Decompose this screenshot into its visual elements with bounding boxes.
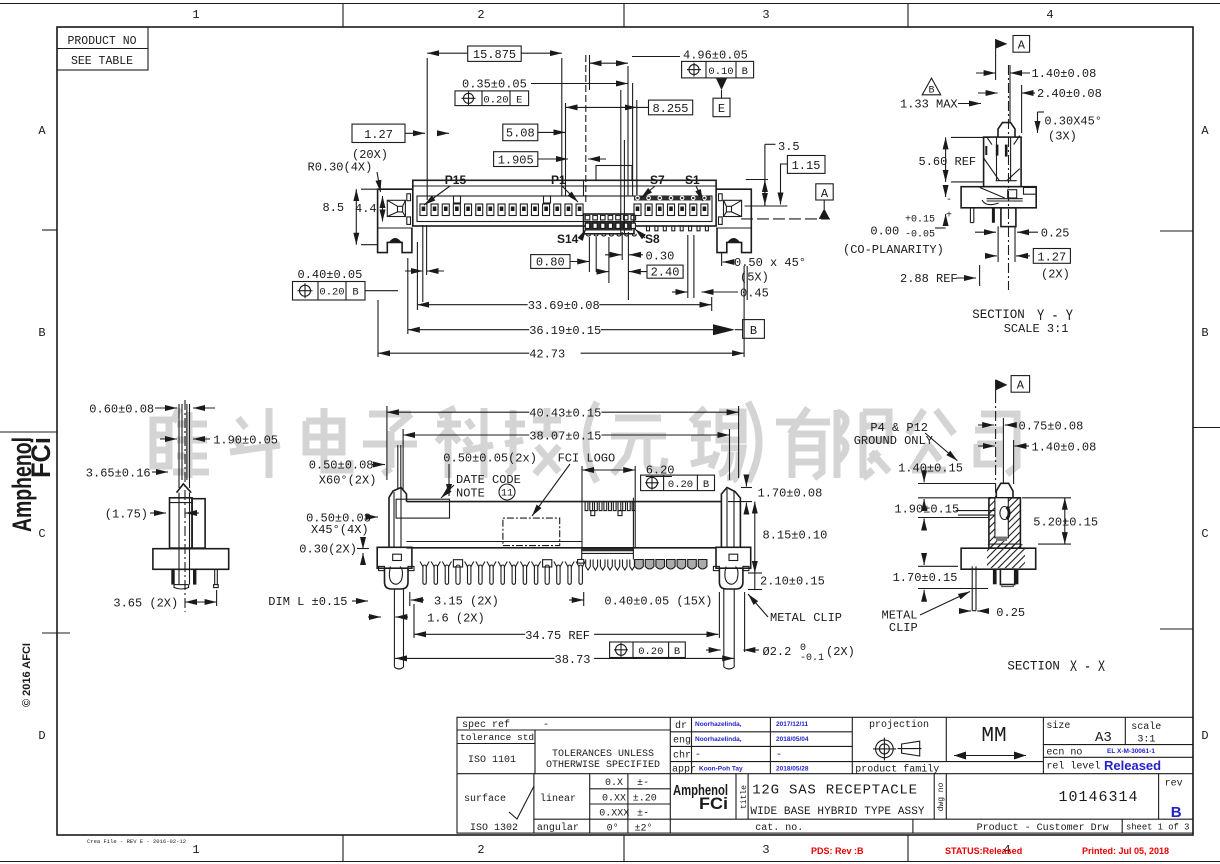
- svg-text:Noorhazelinda,: Noorhazelinda,: [695, 721, 742, 728]
- svg-text:2.40: 2.40: [651, 266, 680, 280]
- title strip: [735, 774, 737, 820]
- svg-text:1.70±0.15: 1.70±0.15: [893, 571, 958, 585]
- rev cell: [1158, 774, 1160, 820]
- svg-text:1.90±0.15: 1.90±0.15: [894, 503, 959, 517]
- dim 42.73: [378, 352, 529, 354]
- svg-text:+0.15: +0.15: [905, 215, 935, 226]
- S8-S14 block: [584, 214, 635, 234]
- svg-text:±.20: ±.20: [633, 794, 657, 805]
- svg-text:+: +: [946, 211, 952, 222]
- body outline: [413, 180, 716, 226]
- svg-text:34.75 REF: 34.75 REF: [525, 629, 590, 643]
- copyright 2016 AFCI vertical: [21, 643, 33, 707]
- fci logo dashed box: [503, 518, 560, 546]
- svg-text:PRODUCT NO: PRODUCT NO: [67, 35, 136, 48]
- svg-text:0°: 0°: [607, 823, 619, 835]
- svg-text:EL X-M-30061-1: EL X-M-30061-1: [1107, 748, 1155, 755]
- svg-text:dwg no: dwg no: [937, 782, 946, 811]
- svg-text:±-: ±-: [637, 809, 649, 820]
- wm char 技: [505, 408, 561, 474]
- tolerance std cell: [457, 743, 535, 745]
- svg-text:0.XX: 0.XX: [602, 794, 626, 805]
- base flange: [153, 549, 229, 570]
- wm char 有: [776, 408, 830, 478]
- product no box: [57, 27, 148, 70]
- part body tube: [170, 498, 193, 548]
- svg-text:2018/05/04: 2018/05/04: [776, 736, 809, 743]
- svg-text:linear: linear: [540, 793, 576, 805]
- svg-text:5.60 REF: 5.60 REF: [919, 155, 977, 169]
- dwg no strip: [933, 774, 935, 820]
- section flag A: [995, 39, 997, 80]
- svg-text:1.70±0.08: 1.70±0.08: [758, 487, 823, 501]
- dim 1.27 (2X): [1033, 249, 1070, 264]
- dim 8.255: [649, 100, 693, 115]
- svg-text:1.40±0.15: 1.40±0.15: [898, 462, 963, 476]
- wm char 司: [975, 414, 1017, 474]
- right post: [721, 488, 740, 548]
- svg-text:surface: surface: [464, 793, 506, 805]
- svg-text:0.50±0.08: 0.50±0.08: [309, 459, 374, 473]
- S pins row S1..S7: [634, 196, 708, 215]
- left tab dome: [389, 238, 402, 242]
- svg-text:8.5: 8.5: [323, 201, 345, 215]
- svg-text:0.XXX: 0.XXX: [599, 809, 629, 820]
- svg-text:(3X): (3X): [1048, 130, 1077, 144]
- svg-text:33.69±0.08: 33.69±0.08: [528, 299, 600, 313]
- dr eng chr appr table: [669, 717, 671, 833]
- pegs: [393, 589, 395, 667]
- part tip: [177, 484, 192, 493]
- svg-text:4.4: 4.4: [355, 202, 377, 216]
- svg-text:1.33 MAX: 1.33 MAX: [900, 98, 958, 112]
- svg-text:rev: rev: [1165, 779, 1183, 790]
- svg-text:1: 1: [192, 8, 199, 22]
- svg-text:B: B: [703, 479, 709, 491]
- part Y-Y base flange: [961, 187, 1036, 208]
- svg-text:scale: scale: [1131, 721, 1161, 733]
- datum flag E: [716, 78, 727, 90]
- fcf mid 0.20 B: [641, 475, 715, 491]
- part Y-Y tip: [998, 123, 1015, 138]
- svg-text:SEE TABLE: SEE TABLE: [71, 55, 133, 68]
- ecn no row: [1043, 756, 1193, 758]
- svg-text:D: D: [1201, 729, 1208, 743]
- svg-text:TOLERANCES UNLESS: TOLERANCES UNLESS: [552, 749, 654, 760]
- svg-text:X - X: X - X: [1070, 658, 1105, 676]
- svg-text:eng: eng: [673, 736, 691, 747]
- svg-text:0.60±0.08: 0.60±0.08: [89, 403, 154, 417]
- svg-text:10146314: 10146314: [1059, 789, 1139, 806]
- dim 0.80: [531, 255, 570, 269]
- svg-text:FCi: FCi: [699, 794, 728, 813]
- svg-text:title: title: [740, 785, 749, 809]
- svg-text:1.90±0.05: 1.90±0.05: [213, 434, 278, 448]
- svg-text:S8: S8: [645, 232, 660, 246]
- svg-text:FCi: FCi: [26, 437, 56, 478]
- svg-text:-: -: [695, 750, 701, 761]
- right end block: [716, 547, 751, 568]
- svg-text:NOTE: NOTE: [456, 487, 485, 501]
- svg-text:1.905: 1.905: [498, 154, 534, 168]
- title block: [457, 717, 1193, 834]
- wm char 子: [363, 414, 417, 474]
- left end block: [377, 547, 412, 568]
- svg-text:-: -: [543, 720, 549, 731]
- date code box: [396, 499, 449, 518]
- svg-text:ISO 1101: ISO 1101: [468, 755, 516, 766]
- svg-text:E: E: [516, 94, 522, 106]
- bottom row texts: [87, 838, 1169, 856]
- svg-text:3: 3: [762, 843, 769, 857]
- centerline: [184, 400, 186, 612]
- svg-text:3.65±0.16: 3.65±0.16: [86, 467, 151, 481]
- svg-text:0.25: 0.25: [1041, 227, 1070, 241]
- svg-text:3: 3: [762, 8, 769, 22]
- svg-text:±2°: ±2°: [635, 823, 653, 835]
- svg-text:dr: dr: [675, 720, 687, 732]
- svg-text:0.20: 0.20: [319, 287, 344, 299]
- svg-text:A: A: [1018, 39, 1026, 53]
- svg-text:8.15±0.10: 8.15±0.10: [763, 529, 828, 543]
- svg-text:OTHERWISE SPECIFIED: OTHERWISE SPECIFIED: [546, 760, 660, 771]
- svg-text:spec ref: spec ref: [462, 719, 510, 731]
- svg-text:(CO-PLANARITY): (CO-PLANARITY): [843, 243, 944, 257]
- dim 34.75 REF: [414, 633, 525, 635]
- svg-text:SECTION: SECTION: [972, 308, 1025, 322]
- tol table: [627, 774, 629, 833]
- svg-text:ecn no: ecn no: [1046, 748, 1082, 759]
- svg-text:A: A: [821, 187, 829, 201]
- svg-text:A3: A3: [1095, 730, 1112, 746]
- svg-text:A: A: [1017, 379, 1025, 393]
- inner body lines: [413, 185, 716, 187]
- svg-text:WIDE BASE HYBRID TYPE ASSY: WIDE BASE HYBRID TYPE ASSY: [750, 806, 925, 818]
- svg-text:S14: S14: [557, 232, 579, 246]
- zone ticks right: [1160, 230, 1193, 232]
- polarization bumps: [454, 196, 461, 203]
- svg-text:Koon-Poh Tay: Koon-Poh Tay: [699, 766, 743, 773]
- svg-text:size: size: [1046, 720, 1070, 732]
- svg-text:B: B: [750, 324, 757, 338]
- svg-text:11: 11: [501, 489, 513, 500]
- svg-text:B: B: [1201, 326, 1208, 340]
- S tails top center: [585, 502, 635, 516]
- svg-text:0.40±0.05: 0.40±0.05: [298, 268, 363, 282]
- svg-text:cat. no.: cat. no.: [755, 823, 803, 834]
- svg-text:1.6 (2X): 1.6 (2X): [427, 612, 485, 626]
- dim 5.08: [503, 124, 538, 141]
- part X-X base flange: [961, 548, 1036, 569]
- svg-text:2.88 REF: 2.88 REF: [900, 272, 958, 286]
- dim 33.69±0.08: [417, 304, 528, 306]
- size scale cells: [1042, 717, 1044, 773]
- svg-text:tolerance std: tolerance std: [460, 732, 534, 743]
- svg-text:8.255: 8.255: [652, 102, 688, 116]
- svg-text:3.15 (2X): 3.15 (2X): [434, 595, 499, 609]
- svg-text:1.15: 1.15: [792, 159, 821, 173]
- svg-text:0.50 x 45°: 0.50 x 45°: [734, 256, 806, 270]
- svg-text:2017/12/11: 2017/12/11: [776, 721, 809, 728]
- svg-text:0.20: 0.20: [668, 479, 693, 491]
- svg-text:2: 2: [477, 8, 484, 22]
- svg-text:±-: ±-: [637, 778, 649, 789]
- svg-text:3:1: 3:1: [1137, 735, 1155, 746]
- legs: [171, 569, 174, 584]
- svg-text:C: C: [1201, 527, 1208, 541]
- dim 1.905: [494, 152, 538, 167]
- left small view: [86, 400, 278, 612]
- spec ref cell: [457, 729, 670, 731]
- X detail left: [387, 200, 405, 216]
- svg-text:2.10±0.15: 2.10±0.15: [760, 575, 825, 589]
- svg-text:38.73: 38.73: [555, 653, 591, 667]
- part Y-Y body: [984, 137, 1022, 187]
- section X-X: [854, 376, 1106, 676]
- wm char 公: [908, 410, 954, 470]
- middle bottom view: [268, 406, 855, 669]
- svg-text:(5X): (5X): [740, 271, 769, 285]
- top pins: [178, 404, 180, 488]
- svg-text:(2X): (2X): [1041, 268, 1070, 282]
- svg-text:1.27: 1.27: [364, 128, 393, 142]
- svg-text:Released: Released: [1104, 758, 1161, 773]
- svg-text:ISO 1302: ISO 1302: [470, 823, 518, 834]
- svg-text:1: 1: [192, 843, 199, 857]
- dim 40.43±0.15: [387, 411, 529, 413]
- top view: [293, 46, 834, 362]
- svg-text:-: -: [776, 750, 782, 761]
- svg-text:C: C: [38, 527, 45, 541]
- P pins row P15..P1: [420, 204, 583, 216]
- svg-text:0.30: 0.30: [646, 250, 675, 264]
- svg-text:2.40±0.08: 2.40±0.08: [1037, 87, 1102, 101]
- svg-text:2018/05/28: 2018/05/28: [776, 766, 809, 773]
- part X-X body hatched: [989, 498, 1021, 548]
- center pin rod: [178, 493, 180, 585]
- svg-text:FCI LOGO: FCI LOGO: [558, 452, 616, 466]
- svg-text:0.30X45°: 0.30X45°: [1044, 115, 1102, 129]
- dim 1.15 box: [787, 156, 825, 174]
- part top edge: [407, 501, 722, 503]
- svg-text:15.875: 15.875: [473, 48, 516, 62]
- svg-text:-0.05: -0.05: [905, 230, 935, 241]
- wm char 科: [437, 408, 493, 478]
- part X-X tip: [996, 483, 1013, 498]
- svg-text:SECTION: SECTION: [1007, 660, 1060, 674]
- svg-text:B: B: [674, 646, 680, 658]
- svg-text:Product - Customer Drw: Product - Customer Drw: [977, 822, 1109, 834]
- svg-text:0.80: 0.80: [536, 256, 565, 270]
- section flag A: [995, 380, 997, 393]
- dim 36.19±0.15: [408, 329, 529, 331]
- wm char 斗: [230, 408, 280, 478]
- right flange: [716, 189, 751, 252]
- svg-text:B: B: [38, 326, 45, 340]
- svg-text:0.00: 0.00: [870, 225, 899, 239]
- svg-text:Printed: Jul 05, 2018: Printed: Jul 05, 2018: [1082, 846, 1169, 856]
- svg-text:Crea File - REV E - 2016-02-: Crea File - REV E - 2016-02-12: [87, 838, 186, 845]
- svg-text:3.5: 3.5: [778, 140, 800, 154]
- svg-text:40.43±0.15: 40.43±0.15: [529, 407, 601, 421]
- svg-text:-0.1: -0.1: [800, 653, 824, 664]
- svg-text:B: B: [1171, 804, 1182, 821]
- fcf 0.20 E: [455, 91, 529, 106]
- wm char 电: [306, 408, 350, 470]
- svg-text:B: B: [742, 66, 748, 78]
- middle band: [457, 773, 1193, 775]
- svg-text:SCALE 3:1: SCALE 3:1: [1004, 322, 1069, 336]
- zone ticks left: [42, 229, 57, 231]
- svg-text:METAL CLIP: METAL CLIP: [770, 611, 842, 625]
- svg-text:sheet 1 of 3: sheet 1 of 3: [1126, 823, 1189, 833]
- svg-text:(1.75): (1.75): [105, 508, 148, 522]
- svg-text:chr: chr: [673, 750, 691, 762]
- svg-text:1.40±0.08: 1.40±0.08: [1032, 67, 1097, 81]
- wm char (: [586, 402, 597, 482]
- svg-text:0.50±0.05(2x): 0.50±0.05(2x): [443, 452, 537, 466]
- dim 38.73: [395, 657, 555, 659]
- svg-text:1.40±0.08: 1.40±0.08: [1032, 441, 1097, 455]
- svg-text:E: E: [718, 102, 725, 116]
- svg-text:R0.30(4X): R0.30(4X): [308, 161, 373, 175]
- wm char 限: [837, 410, 889, 478]
- svg-text:5.20±0.15: 5.20±0.15: [1033, 516, 1098, 530]
- svg-text:5.08: 5.08: [506, 127, 535, 141]
- svg-text:3.65 (2X): 3.65 (2X): [113, 597, 178, 611]
- bottom row of title block: [670, 818, 1193, 820]
- svg-text:P15: P15: [445, 173, 467, 187]
- svg-text:(2X): (2X): [826, 645, 855, 659]
- svg-text:2: 2: [477, 843, 484, 857]
- section Y-Y: [843, 36, 1102, 337]
- svg-text:-: -: [946, 195, 952, 206]
- dim 15.875: [468, 46, 522, 61]
- svg-text:1.27: 1.27: [1037, 250, 1066, 264]
- dim 2.40: [647, 265, 683, 278]
- fcf bottom 0.20 B: [610, 642, 686, 658]
- svg-text:angular: angular: [537, 822, 579, 834]
- left post: [389, 488, 407, 548]
- svg-text:projection: projection: [869, 719, 929, 731]
- svg-text:12G SAS RECEPTACLE: 12G SAS RECEPTACLE: [752, 783, 918, 799]
- svg-text:X60°(2X): X60°(2X): [319, 474, 377, 488]
- legs: [993, 569, 997, 584]
- svg-text:4: 4: [1046, 8, 1053, 22]
- watermark 睢斗电子科技(无锡)有限公司: [153, 402, 1017, 482]
- svg-text:X45°(4X): X45°(4X): [311, 523, 369, 537]
- body bottom edges: [407, 547, 717, 549]
- part Y-Y legs: [969, 208, 971, 223]
- svg-text:0.25: 0.25: [996, 606, 1025, 620]
- svg-text:A: A: [38, 124, 46, 138]
- svg-text:rel level: rel level: [1046, 761, 1100, 773]
- right clip: [719, 568, 743, 589]
- svg-text:36.19±0.15: 36.19±0.15: [529, 324, 601, 338]
- svg-text:0.30(2X): 0.30(2X): [299, 543, 357, 557]
- dim 38.07±0.15: [403, 434, 529, 436]
- svg-text:Ø2.2: Ø2.2: [763, 645, 792, 659]
- svg-text:0.75±0.08: 0.75±0.08: [1019, 420, 1084, 434]
- wm char ): [748, 402, 759, 482]
- wm char 无: [611, 418, 666, 474]
- svg-text:GROUND ONLY: GROUND ONLY: [854, 434, 933, 448]
- svg-text:0.10: 0.10: [708, 66, 733, 78]
- svg-text:A: A: [1201, 124, 1209, 138]
- press-fit pin comb: [420, 560, 585, 585]
- datum note triangle B: [922, 78, 941, 95]
- left clip: [385, 568, 409, 589]
- amphenol fci vertical logo: [7, 437, 56, 532]
- svg-text:STATUS:Released: STATUS:Released: [945, 846, 1022, 856]
- zone ticks top: [342, 4, 344, 28]
- wm char 锡: [691, 408, 743, 480]
- X detail right: [724, 200, 742, 216]
- right tab dome: [727, 238, 740, 242]
- svg-text:DIM L ±0.15: DIM L ±0.15: [268, 595, 347, 609]
- svg-text:S1: S1: [685, 173, 700, 187]
- svg-text:0.35±0.05: 0.35±0.05: [462, 77, 527, 91]
- svg-text:© 2016 AFCI: © 2016 AFCI: [21, 643, 33, 707]
- svg-text:42.73: 42.73: [529, 348, 565, 362]
- svg-text:0.45: 0.45: [740, 287, 769, 301]
- svg-text:0.20: 0.20: [638, 646, 663, 658]
- svg-text:Noorhazelinda,: Noorhazelinda,: [695, 736, 742, 743]
- svg-text:0.40±0.05 (15X): 0.40±0.05 (15X): [604, 595, 712, 609]
- zone ticks bottom: [342, 835, 344, 862]
- clip leg: [971, 566, 973, 610]
- svg-text:0.X: 0.X: [605, 778, 623, 789]
- long extension lines: [585, 55, 587, 205]
- svg-text:4.96±0.05: 4.96±0.05: [683, 49, 748, 63]
- svg-text:P1: P1: [551, 173, 566, 187]
- svg-text:0.20: 0.20: [483, 94, 508, 106]
- raised key: [596, 166, 632, 181]
- svg-text:PDS: Rev :B: PDS: Rev :B: [811, 846, 864, 856]
- svg-text:P4 & P12: P4 & P12: [870, 421, 928, 435]
- wm char 睢: [153, 408, 209, 478]
- svg-text:CLIP: CLIP: [889, 621, 918, 635]
- svg-text:D: D: [38, 729, 45, 743]
- centerline: [1008, 65, 1010, 290]
- svg-text:MM: MM: [981, 725, 1006, 748]
- svg-text:B: B: [928, 86, 934, 97]
- section flag A right: [741, 218, 830, 220]
- left flange: [378, 189, 413, 252]
- svg-text:B: B: [352, 287, 358, 299]
- svg-text:S7: S7: [650, 173, 665, 187]
- dim 1.27 (20X): [352, 124, 405, 142]
- fcf 0.10 B: [682, 61, 754, 78]
- svg-text:38.07±0.15: 38.07±0.15: [529, 430, 601, 444]
- SMT pins row: [578, 560, 707, 571]
